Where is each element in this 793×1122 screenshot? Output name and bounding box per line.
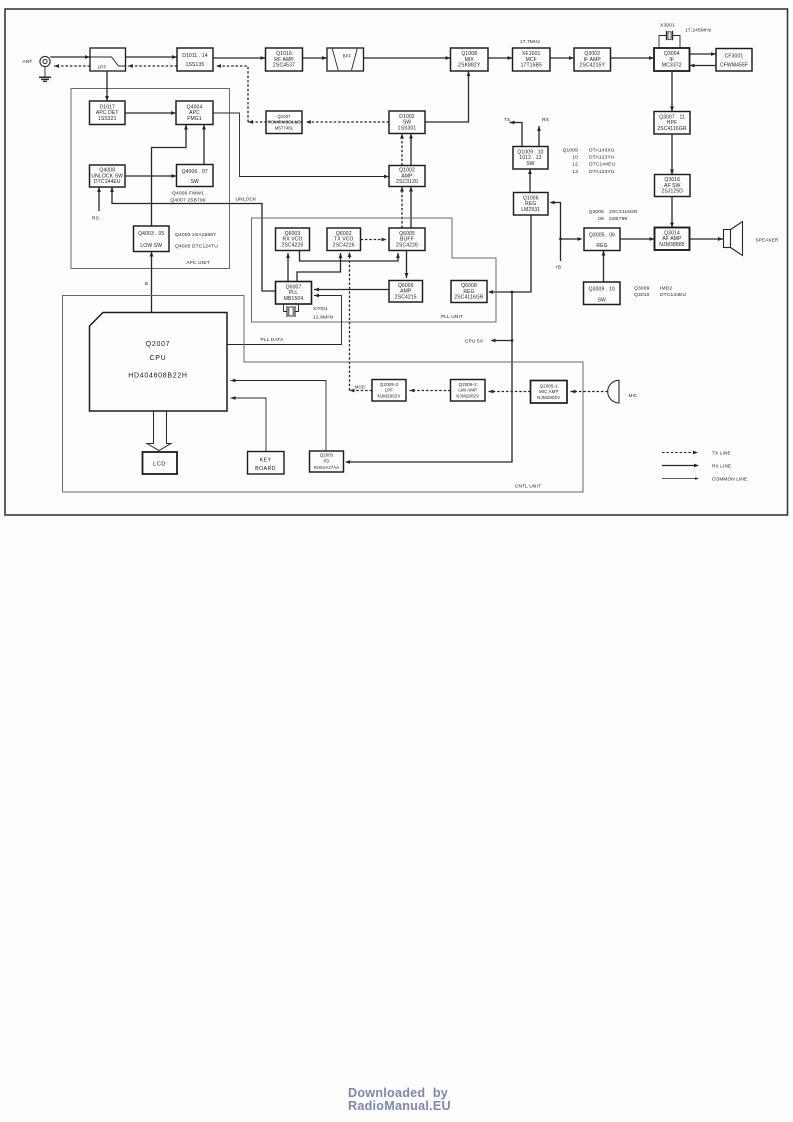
wire Q3004 to CF3001 [690,52,717,56]
svg-text:SW: SW [191,179,199,185]
wire UNLOCK from Q6007 to Q4008 [110,187,275,291]
APC detector D1017 [90,101,126,125]
svg-text:Q3009 . 10: Q3009 . 10 [589,287,615,293]
wire Q6005 to Q6006 [405,251,409,279]
svg-text:MC3372: MC3372 [662,63,682,69]
svg-text:Q3010: Q3010 [634,292,650,298]
svg-text:2SB799: 2SB799 [609,216,627,222]
mic amplifier Q2005-1 [531,381,568,404]
svg-text:Q3005 . 06: Q3005 . 06 [589,233,615,239]
svg-text:Q2003: Q2003 [320,453,334,458]
svg-text:APC UNIT: APC UNIT [186,260,210,266]
svg-text:DTA143XU: DTA143XU [589,148,615,154]
svg-text:TS: TS [504,117,510,123]
RF amplifier Q1016 [266,48,303,71]
svg-text:POWRMODULE: POWRMODULE [268,120,300,125]
low pass filter Q2009-3 [372,380,406,402]
CPU Q2007 [90,313,228,412]
svg-text:D1011 . 14: D1011 . 14 [182,53,208,59]
svg-text:M67748L: M67748L [275,125,294,130]
wire Q3005.06 to Q3014 [620,237,655,241]
svg-text:Q2005-1: Q2005-1 [540,383,559,388]
reset IC Q2003 [310,451,344,472]
label Q3005 2SC4116GR / 06 2SB799 [589,209,638,222]
svg-text:Q2007: Q2007 [146,341,171,348]
wire LPF to ANT (TX line, dashed) [54,64,90,68]
power module Q1007 [266,111,302,134]
svg-text:RS: RS [542,117,549,123]
wire MIC to Q2005-1 (TX dashed) [571,390,608,394]
diode switch D1011 [177,48,213,71]
unlock switch Q4008 [90,165,126,187]
wire Q4006.07 to Q4004 [202,125,206,165]
wire KEYBOARD to CPU [231,396,267,451]
label Q4006 FMW1 / Q4007 2SB799 [170,191,205,204]
wire D1002 to Q1007 (TX line, dashed) [306,120,389,124]
svg-text:CPU: CPU [150,355,167,362]
IF amplifier Q3002 [574,48,611,71]
svg-text:Q4005 DTC124TU: Q4005 DTC124TU [175,244,218,250]
wire D1017 to Q4004 [125,111,176,115]
IF system IC Q3004 [654,48,690,71]
filter LPF [90,48,126,71]
wire D1011 to LPF (TX line, dashed) [128,64,177,68]
limiter amplifier Q2009-2 [451,380,486,402]
AF switch Q3016 [655,175,691,197]
svg-text:LPF: LPF [385,388,394,393]
APC UNIT frame [71,89,230,269]
svg-text:2SJ125D: 2SJ125D [661,189,683,195]
wire XF1001 to Q3002 (RX line) [550,56,574,60]
wire BPF to Q1008 (RX line) [364,56,451,60]
svg-text:2SC4215: 2SC4215 [395,294,417,300]
footer watermark Downloaded by RadioManual.EU [348,1087,451,1112]
svg-text:2SC4116GR: 2SC4116GR [454,295,484,301]
wire Q2005-1 to Q2009-2 (TX dashed) [489,390,531,394]
svg-text:2SC4215Y: 2SC4215Y [580,63,606,69]
svg-text:REG: REG [596,243,607,249]
wire MOD dashed riser [349,253,351,391]
amplifier Q6006 [389,281,423,303]
switch Q1009.10 [513,147,548,170]
antenna jack (coax connector) [40,56,50,66]
svg-text:Q3009: Q3009 [634,286,650,292]
svg-text:17.7MHz: 17.7MHz [520,39,541,45]
diode switch D1002 [389,111,425,134]
svg-text:DTC144EU: DTC144EU [94,179,121,185]
wire +B to Q1006 and Q3005.06 [550,201,583,261]
svg-text:KEY: KEY [260,458,272,464]
svg-text:MB1504: MB1504 [284,296,304,302]
buffer Q6005 [389,228,425,251]
AF amplifier Q3014 [655,228,690,251]
RX VCO Q6003 [276,228,310,251]
svg-text:NJM38885: NJM38885 [659,242,684,248]
svg-text:MOD: MOD [355,385,365,390]
svg-text:LIM AMP: LIM AMP [458,388,477,393]
regulator Q6008 [451,281,487,303]
wire MOD dashed from LPF to Q6002 [350,389,373,393]
PLL IC Q6007 [276,282,312,305]
low power switch Q4003.05 [134,226,170,252]
svg-text:X3001: X3001 [660,23,675,29]
svg-text:DTC144EU: DTC144EU [660,292,687,298]
svg-text:B: B [145,281,148,286]
svg-text:2SC4226: 2SC4226 [282,242,304,248]
svg-text:2SC4116GR: 2SC4116GR [609,209,638,215]
svg-text:DTA123YU: DTA123YU [589,169,615,175]
svg-text:Q4003 2SA1586Y: Q4003 2SA1586Y [175,232,217,238]
svg-text:CF3001: CF3001 [725,54,744,60]
APC amplifier Q4004 [176,101,213,125]
svg-text:2SC4116GR: 2SC4116GR [657,126,687,132]
mixer Q1008 [451,48,489,71]
svg-text:X7001: X7001 [313,306,328,312]
svg-text:BPF: BPF [343,54,352,59]
label Q1009..13 transistor list [563,148,616,175]
svg-text:BOARD: BOARD [255,466,276,472]
wire Q6005 to Q1002 (RX solid) [409,187,413,229]
svg-text:2SC3120: 2SC3120 [396,179,418,185]
wire Q6007 to Q6003 [286,253,290,282]
svg-text:SPEAKER: SPEAKER [755,238,779,243]
regulator Q1006 [514,193,549,216]
svg-text:IMD2: IMD2 [660,286,672,292]
wire LPF to D1011 (RX line) [126,55,178,59]
display LCD [143,452,178,474]
svg-text:NJM2902V: NJM2902V [537,395,560,400]
svg-text:SW: SW [598,298,606,304]
svg-text:CFWM455F: CFWM455F [720,63,748,69]
svg-text:NJM2902V: NJM2902V [378,393,401,398]
TX VCO Q6002 [327,228,361,251]
wire RS stub to Q4008 [97,187,101,211]
wire ANT to LPF (RX line) [50,55,90,59]
svg-text:TX LINE: TX LINE [712,451,731,456]
svg-text:2SC4537: 2SC4537 [273,63,295,69]
diagram outer border frame [5,9,788,515]
wire low-sw node to Q4004 [152,125,188,227]
svg-text:Q3005: Q3005 [589,209,605,215]
svg-text:CNTL UNIT: CNTL UNIT [515,484,541,490]
svg-text:PD: PD [323,459,329,464]
wire VCO bus to Q6005 [300,251,400,262]
svg-text:DTC144EU: DTC144EU [589,162,616,168]
wire D1002 to Q1008 [425,71,470,122]
svg-text:Q4006 FMW1: Q4006 FMW1 [172,191,204,197]
CNTL UNIT frame [63,296,584,493]
wire Q3007 to Q3016 [670,134,674,175]
svg-text:+B: +B [555,265,561,271]
svg-text:2SC4226: 2SC4226 [396,242,418,248]
svg-text:Q2009-2: Q2009-2 [459,382,478,387]
wire D1011 to Q1016 (RX line) [213,56,266,60]
wire Q2003 to CPU [231,379,327,451]
svg-text:1SS135: 1SS135 [186,62,205,68]
wire TX dashed riser to D1011 [218,66,248,122]
wire CPU to Q4003.05 [150,252,154,313]
svg-text:LCD: LCD [153,462,166,468]
amplifier Q1002 [389,166,425,187]
legend COMMON LINE (thin arrow) [662,477,747,482]
hollow arrow CPU to LCD [147,411,171,451]
microphone MIC [608,380,619,403]
wire Q1016 to BPF (RX line) [303,56,328,60]
crystal X3001 [659,31,680,48]
svg-text:FMG1: FMG1 [187,116,202,122]
wire CF3001 to Q3004 [690,64,717,68]
wire Q6002 to Q6005 (dashed) [361,238,387,242]
wire Q1006 to Q1009.10 [528,169,532,193]
wire Q3016 to Q3014 [670,197,674,228]
svg-text:MIC: MIC [628,393,638,398]
wire Q3002 to Q3004 (RX line) [611,56,655,60]
svg-text:PLL UNIT: PLL UNIT [441,314,463,320]
wire Q1002 to D1002 (TX dashed) [400,134,404,166]
svg-text:17.245MHz: 17.245MHz [685,28,712,34]
wire PLL DATA from CPU to Q6007 [227,294,342,345]
svg-text:12: 12 [572,162,578,168]
svg-text:Q1009: Q1009 [563,148,579,154]
legend RX LINE (solid arrow) [662,464,731,469]
svg-text:RS: RS [92,216,99,222]
filter BPF [327,48,364,71]
svg-text:UNLOCK: UNLOCK [236,197,258,203]
wire Q4008 to Q4006.07 [125,174,177,178]
svg-text:RH5VA37AA: RH5VA37AA [314,465,339,470]
wire Q3004 to Q3007 [670,71,674,112]
wire Q2009-2 to Q2009-3 (TX dashed) [410,389,451,393]
wire Q1002 to D1002 (RX solid) [409,134,413,166]
svg-text:12.8MHz: 12.8MHz [313,315,334,321]
svg-text:Q2009-3: Q2009-3 [380,382,399,387]
svg-text:1SS321: 1SS321 [98,116,117,122]
crystal filter XF1001 [513,48,551,71]
crystal X7001 [284,304,299,317]
svg-text:LM2931: LM2931 [521,207,540,213]
svg-text:COMMON LINE: COMMON LINE [712,477,747,482]
wire Q3014 to speaker [690,237,724,241]
filter Q3007 [654,112,690,135]
svg-text:2SC4226: 2SC4226 [333,242,355,248]
svg-text:Q4003 . 05: Q4003 . 05 [138,231,164,237]
label Q4003 2SA1586Y / Q4005 DTC124TU [175,232,218,250]
wire Q3009.10 to Q3005.06 [602,251,606,283]
keyboard [248,452,285,475]
ground below antenna jack [39,67,51,82]
label Q3009 IMD2 / Q3010 DTC144EU [634,286,687,299]
svg-text:17T15B5: 17T15B5 [521,63,542,69]
svg-text:MIC AMP: MIC AMP [539,389,559,394]
svg-text:06: 06 [598,216,604,222]
wire Q6006 to Q6007 [314,288,389,292]
svg-text:10: 10 [572,155,578,161]
svg-text:2SK882Y: 2SK882Y [458,63,481,69]
wire Q1006 to Q6008 REG and CPU 5V feed [345,215,531,464]
svg-text:Q4006 . 07: Q4006 . 07 [182,169,208,175]
svg-text:ANT: ANT [22,59,32,65]
PLL UNIT frame [252,218,497,322]
wire Q4004 to Q1002 [213,113,389,178]
wire Q1007 to D1011 (TX line, dashed) [248,120,302,124]
svg-text:Q4007 2SB799: Q4007 2SB799 [170,198,205,204]
svg-text:CPU 5V: CPU 5V [465,339,484,345]
svg-text:NJM2902V: NJM2902V [456,393,479,398]
svg-text:PLL DATA: PLL DATA [261,337,285,343]
svg-text:SW: SW [526,161,534,167]
ceramic filter CF3001 [716,49,752,72]
switch Q3009.10 [584,282,621,305]
svg-text:13: 13 [572,169,578,175]
wire LPF to D1017 [105,71,109,101]
svg-text:LOW SW: LOW SW [140,243,162,249]
wire Q1009 RS stub [537,126,541,147]
regulator Q3005.06 [584,228,620,251]
legend TX LINE (dashed arrow) [662,451,731,456]
wire Q6005 to Q1002 (TX dashed) [400,187,404,229]
svg-text:DTA123YU: DTA123YU [589,155,615,161]
wire Q6007 to Q6002 [297,253,342,282]
wire Q1008 to XF1001 (RX line) [488,56,513,60]
svg-text:LPF: LPF [98,65,107,70]
svg-text:HD404608B22H: HD404608B22H [128,373,187,380]
svg-text:Q1007: Q1007 [277,114,291,119]
speaker SP [724,222,743,256]
svg-text:1SS301: 1SS301 [398,125,417,131]
svg-text:RX LINE: RX LINE [712,464,731,469]
wire Q1009 TS stub [510,121,523,147]
switch Q4006.07 [177,165,214,187]
